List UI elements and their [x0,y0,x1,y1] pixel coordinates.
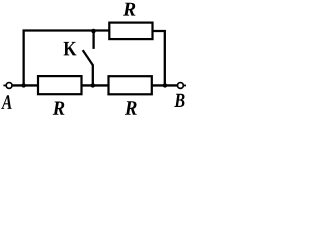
resistor R bottom-right [109,76,152,94]
label R top [123,3,135,16]
node right junction [163,83,167,87]
label K [64,42,77,56]
node switch top [91,29,96,34]
terminal B [178,83,187,89]
node switch bottom [91,83,95,87]
wire top horizontal [23,29,111,31]
terminal A [3,83,12,89]
label B [174,94,184,107]
label A [1,95,11,109]
node left junction [21,83,25,87]
switch K blade [83,50,93,65]
wire between bottom resistors [82,84,109,86]
wire R2 to B [152,84,177,86]
resistor R top [109,23,152,39]
wire A to R1 [13,84,39,86]
switch K top stub [92,31,94,49]
label R bottom-right [125,101,137,115]
resistor R bottom-left [38,76,82,94]
wire R top to right vertical [153,31,165,85]
label R bottom-left [53,102,65,115]
switch K bottom stub [92,65,94,86]
wire left vertical [22,31,24,86]
